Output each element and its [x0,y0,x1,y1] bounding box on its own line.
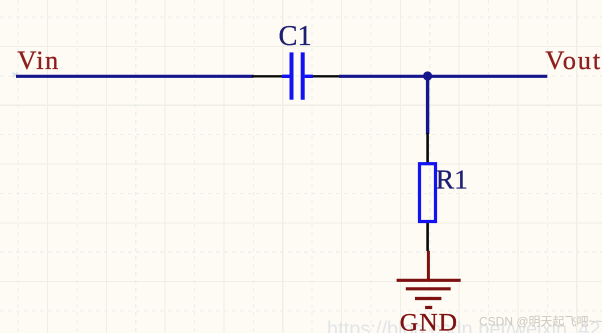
svg-text:GND: GND [400,308,458,333]
resistor R1 body [420,164,436,222]
wire Vin to C1 (net) [16,75,254,78]
capacitor C1 plates [282,52,313,99]
wire C1 to Vout (net) [339,75,547,78]
capacitor C1 pin 1 (black) [252,75,291,77]
wire junction to R1 (net, vertical) [426,76,429,134]
junction node [423,71,432,80]
ground stub wire [427,251,430,280]
svg-text:CSDN @明天起飞吧~~~: CSDN @明天起飞吧~~~ [479,315,602,329]
svg-text:Vout: Vout [545,45,602,75]
svg-text:Vin: Vin [17,45,59,75]
wire end marker (left dangling end) [13,73,18,77]
ground symbol GND [397,280,461,307]
svg-text:C1: C1 [279,21,312,52]
svg-text:R1: R1 [436,163,468,194]
resistor R1 pin 1 (black) [426,133,429,163]
resistor R1 pin 2 (black) [426,223,429,251]
capacitor C1 pin 2 (black) [305,75,340,77]
